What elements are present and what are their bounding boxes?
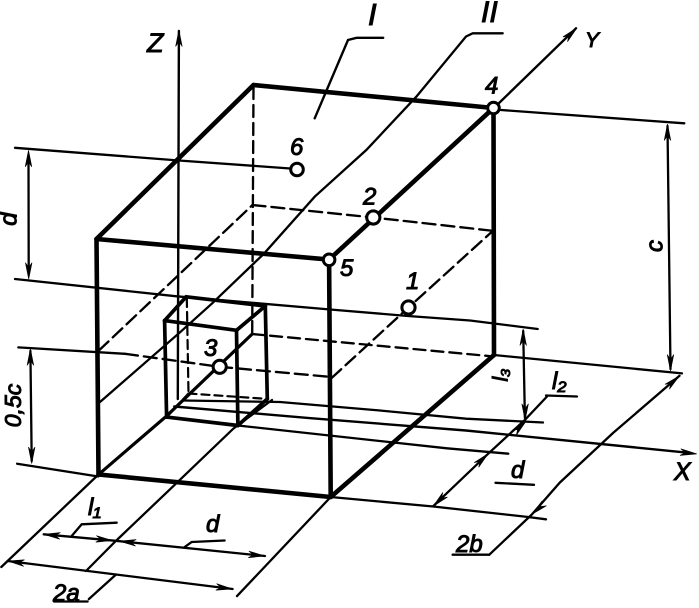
big box hidden vertical edge B-B' (dashed): [252, 87, 253, 334]
small box top edge G-H (right): [237, 306, 266, 330]
big box vertical edge A-A' (front-left): [97, 239, 99, 475]
svg-text:d: d: [511, 457, 525, 484]
small box top edge E-F (left): [165, 297, 187, 321]
svg-text:II: II: [481, 0, 498, 29]
svg-text:Y: Y: [585, 29, 601, 52]
X axis line: [174, 407, 690, 453]
section line I (leader under label I): [315, 38, 384, 119]
svg-text:6: 6: [290, 134, 304, 161]
d-right label underline: [496, 483, 535, 485]
point 4 circle: [488, 102, 500, 114]
big box bottom edge A'-B' (left, seen through box): [99, 334, 252, 474]
svg-text:c: c: [642, 240, 669, 252]
d-bottom label underline + bend: [185, 541, 225, 548]
svg-text:2a: 2a: [52, 580, 80, 607]
dashed 0,5c level line through point 3: [125, 354, 332, 377]
point 5 circle: [323, 254, 335, 266]
2a arrow right: [216, 584, 233, 591]
big box bottom edge A'-D' (front): [99, 475, 331, 498]
svg-text:l₁: l₁: [88, 494, 101, 521]
l3 arrow up: [520, 329, 527, 346]
c bottom extension line (from C'): [494, 355, 682, 373]
floor line through origin along X (l2 top extension): [184, 401, 544, 423]
2a arrow left: [8, 560, 25, 567]
big box top edge C-D (right, Y-direction, through point 2): [329, 108, 493, 260]
d-bottom arrow right: [248, 551, 265, 558]
point 1 circle: [402, 301, 415, 314]
2a dimension line: [8, 561, 233, 589]
svg-text:1: 1: [406, 268, 419, 295]
d-left bottom extension line (long, source top level, through point 1 area to l3): [15, 279, 538, 329]
point 2 circle: [367, 211, 380, 224]
2b dimension line (diag-2): [489, 376, 679, 555]
extension from A' to lower left (2a/l1 left extension): [1, 475, 98, 568]
svg-text:4: 4: [485, 73, 498, 100]
l1 arrow right: [96, 536, 113, 543]
c top extension line (from point 4): [501, 110, 684, 123]
c arrow up: [664, 124, 671, 141]
Y axis line (from point 4 to upper right): [497, 28, 577, 105]
svg-text:0,5c: 0,5c: [0, 383, 26, 427]
l2/d-right dimension line (diag-1): [433, 397, 547, 507]
d-bottom arrow left: [120, 540, 137, 547]
d-right arrow down-left (at line-low): [433, 492, 447, 506]
l1/d-bottom dimension line: [44, 534, 265, 556]
small box vertical edge H-H' (front-right): [237, 330, 238, 425]
svg-text:X: X: [673, 458, 692, 486]
big box hidden bottom edge B'-C' (dashed): [252, 334, 494, 357]
point 6 circle: [291, 163, 304, 176]
point 3 circle: [213, 360, 226, 373]
svg-text:l₃: l₃: [490, 369, 513, 382]
big box top edge B-C (back, X-direction): [254, 85, 494, 108]
small box hidden vertical edge F-F' (dashed): [187, 298, 189, 394]
svg-text:Z: Z: [146, 28, 165, 58]
svg-text:d: d: [206, 511, 220, 538]
d-right arrow up-right (at line-3): [474, 454, 488, 468]
d-left arrow down: [25, 263, 32, 280]
svg-text:l₂: l₂: [552, 368, 566, 395]
small box bottom edge H'-G' (right): [238, 399, 267, 426]
big box top edge A-B (left, Y-direction): [97, 85, 254, 239]
extension of front bottom edge beyond D' (line-low): [331, 497, 546, 519]
Z axis arrowhead: [176, 30, 183, 47]
Y axis arrowhead: [563, 28, 577, 42]
small box hidden bottom edge F'-E' (dashed): [167, 394, 189, 418]
0,5c arrow up: [27, 349, 34, 366]
l2 label underline: [546, 396, 577, 397]
l1 label underline + bend: [72, 523, 117, 536]
small box top edge H-E (front): [165, 321, 237, 331]
extension of bottom edge D'-C' beyond D' (2a right extension): [237, 497, 331, 596]
l3 arrow down: [522, 404, 529, 421]
small box bottom edge E'-H' (front): [167, 417, 238, 425]
small box bottom front edge extended right (line-3, d-right top ext): [238, 426, 508, 454]
big box vertical edge C-C' (back-right, below point 4): [491, 108, 496, 355]
l2 arrow (up-right at line-1): [512, 422, 526, 436]
d-left top extension line (to point 6): [15, 148, 290, 169]
small box vertical edge E-E' (front-left): [165, 321, 167, 418]
small box hidden bottom edge F'-G' (dashed): [189, 394, 268, 399]
Z axis line: [178, 31, 179, 399]
dashed diagonal through point 1 (to edge below 4): [332, 231, 493, 378]
0,5c arrow down: [28, 447, 35, 464]
dashed line at level of point 2 (on back face): [253, 205, 493, 231]
section line II (long thin diagonal): [100, 33, 503, 402]
2a label underline: [54, 600, 88, 602]
svg-text:d: d: [0, 212, 23, 226]
2b arrow up-right: [665, 376, 680, 389]
small box top edge F-G (back): [186, 297, 265, 306]
0,5c dimension line: [30, 351, 31, 461]
2b arrow down-left: [532, 501, 547, 514]
centre line along Y (through small box corner H'): [86, 400, 272, 571]
svg-text:2: 2: [362, 184, 376, 211]
l1 arrow left: [44, 533, 61, 540]
dashed mid-height line on left face (from front-left edge to B-B' edge): [99, 205, 253, 350]
X axis arrowhead: [680, 449, 697, 456]
big box bottom edge D'-C' (right): [331, 355, 494, 497]
big box top edge A-D (front, X-direction): [97, 239, 330, 260]
2a label leader slash: [89, 575, 116, 600]
0,5c bottom extension line: [17, 464, 98, 477]
svg-text:5: 5: [340, 255, 354, 282]
big box vertical edge D-D' (front-right, below point 5): [329, 260, 331, 497]
svg-text:I: I: [368, 0, 377, 32]
svg-text:3: 3: [204, 335, 218, 362]
2b label underline: [453, 554, 490, 556]
d-left dimension line: [27, 160, 30, 269]
l3 dimension line: [523, 331, 525, 418]
0,5c top extension line (solid part): [18, 347, 125, 353]
c arrow down: [667, 355, 674, 372]
c dimension line: [668, 126, 671, 369]
small box vertical edge G-G' (back-right): [265, 306, 267, 399]
d-left arrow up: [25, 150, 32, 167]
